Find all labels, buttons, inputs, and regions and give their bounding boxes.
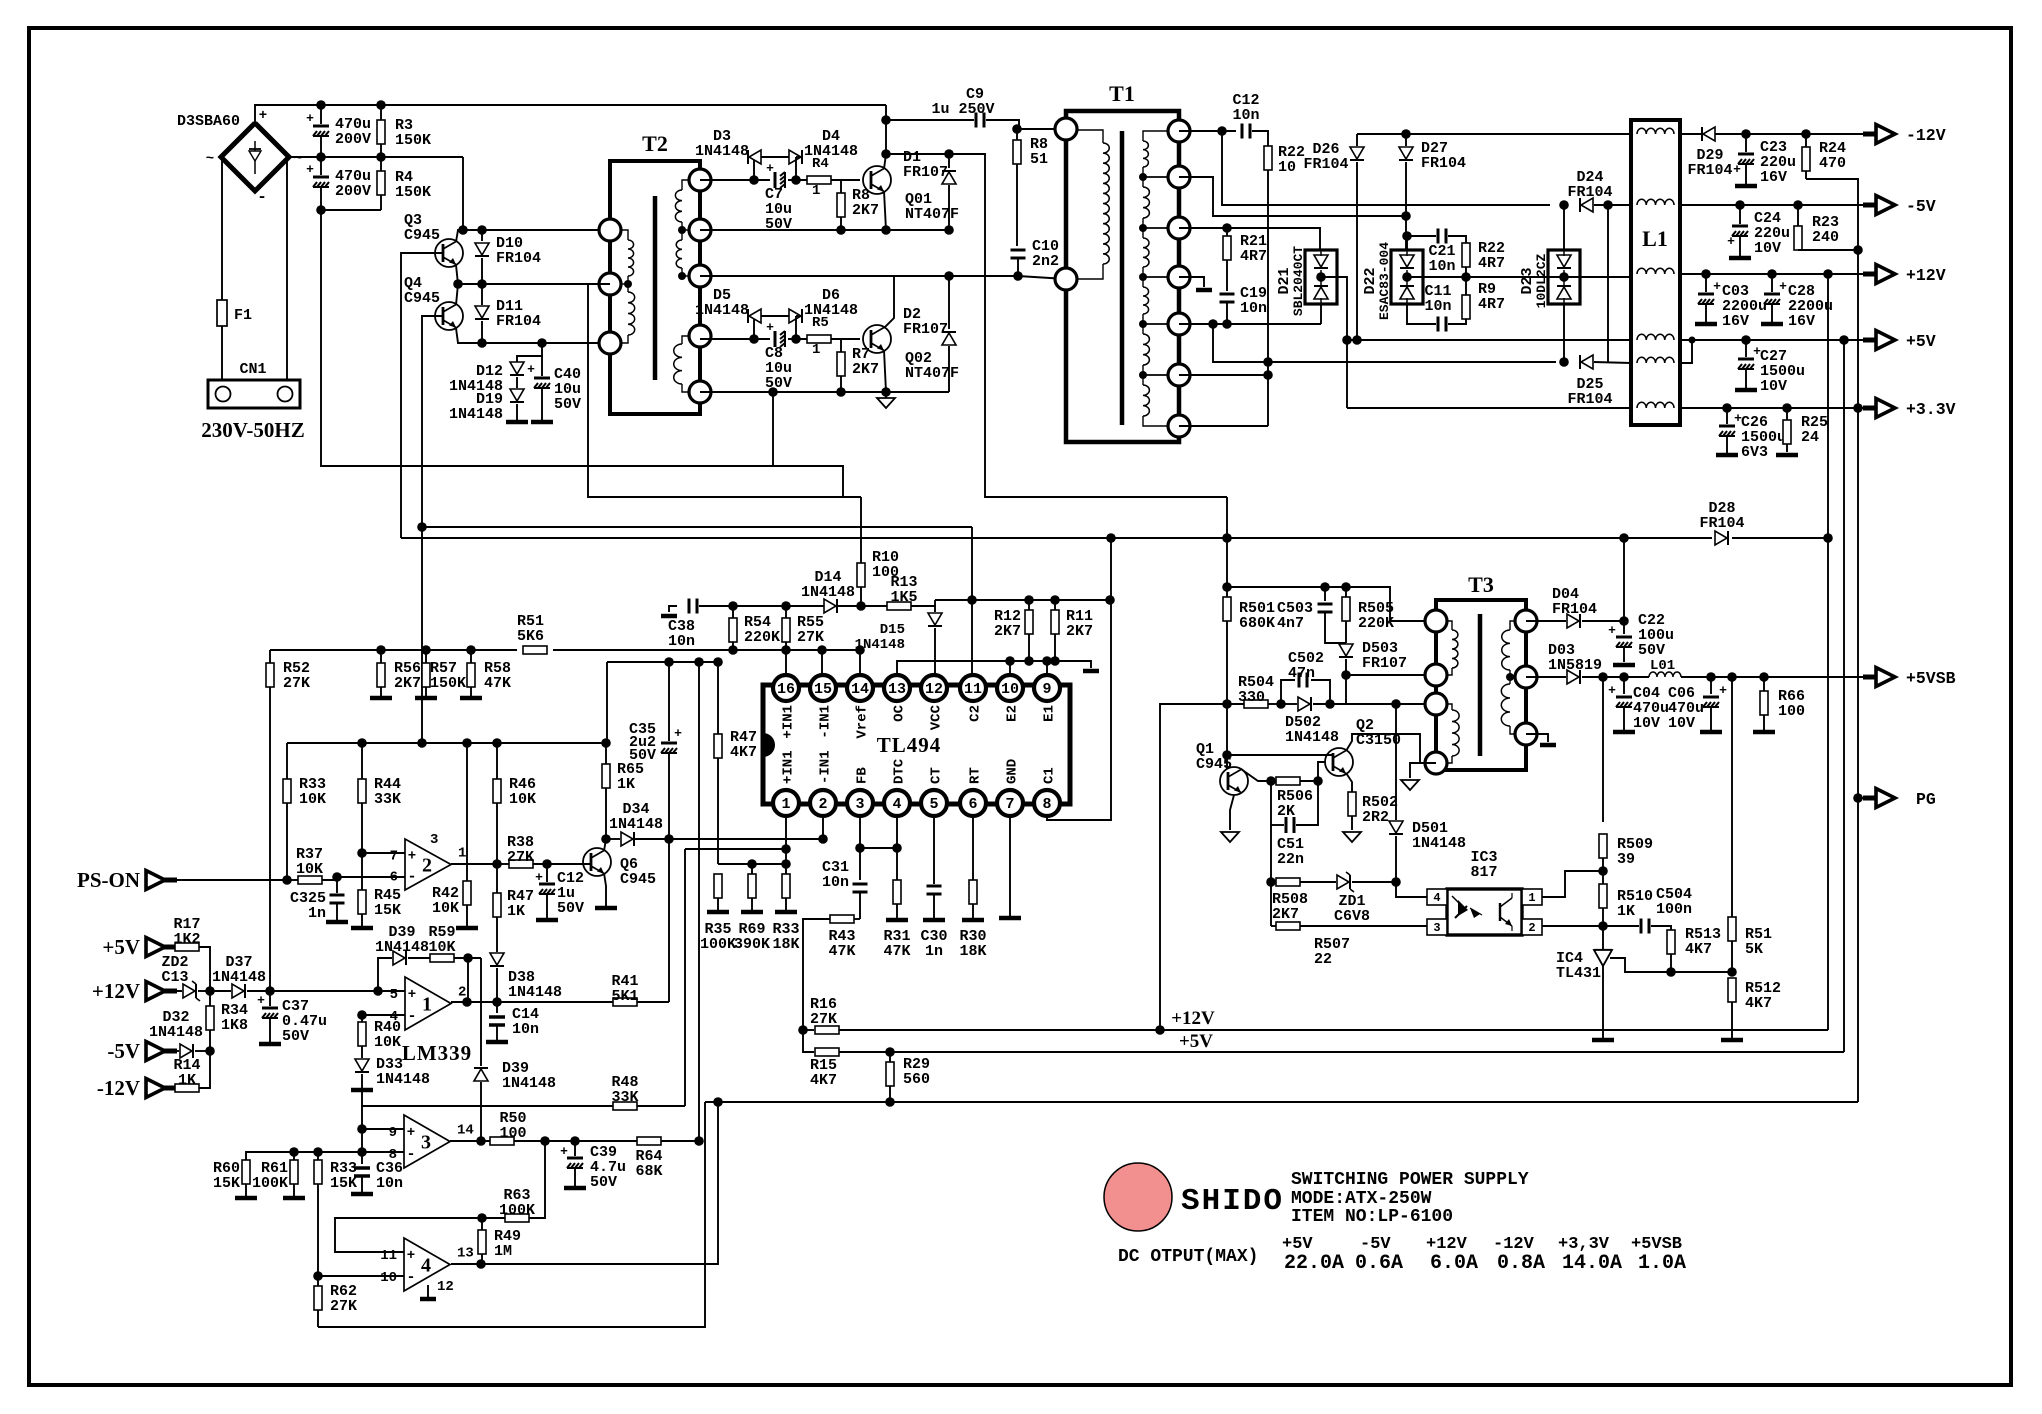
svg-text:11: 11 (964, 681, 982, 698)
capacitor C8 10u 50V (774, 331, 777, 347)
resistor R14 1K (165, 1087, 175, 1089)
wire: op2 out (451, 863, 497, 865)
resistor R17 1K2 (165, 946, 175, 948)
connector CN1 (208, 380, 300, 408)
resistor R58 47K (470, 650, 472, 663)
svg-text:10V: 10V (1760, 378, 1787, 395)
wire: T2 mid-left to bus (588, 284, 861, 497)
wire: +5V output rail (1680, 339, 1874, 341)
zener ZD2 C13 (165, 990, 182, 992)
resistor R42 10K (466, 743, 468, 881)
svg-text:2K7: 2K7 (394, 675, 421, 692)
svg-text:10V: 10V (1633, 715, 1660, 732)
svg-text:9: 9 (389, 1125, 397, 1141)
svg-text:+: + (535, 870, 543, 885)
ground (370, 696, 392, 701)
capacitor C504 100n (1603, 925, 1639, 927)
svg-text:MODE:ATX-250W: MODE:ATX-250W (1291, 1189, 1432, 1209)
svg-text:T2: T2 (642, 131, 668, 156)
svg-text:10DL2CZ: 10DL2CZ (1534, 253, 1549, 308)
svg-text:1: 1 (812, 183, 820, 199)
resistor R33 10K (286, 743, 288, 779)
svg-text:11: 11 (380, 1248, 397, 1264)
svg-text:4: 4 (421, 1255, 431, 1277)
wire: primary negative rail down (321, 210, 843, 497)
svg-text:2: 2 (422, 855, 432, 877)
resistor R50 100 (490, 1137, 514, 1145)
ground (923, 918, 945, 923)
diode D3 1N4148 (747, 157, 754, 180)
svg-text:+: + (257, 993, 265, 1008)
comparator 4 LM339 (404, 1238, 450, 1291)
svg-text:PS-ON: PS-ON (77, 868, 140, 892)
svg-text:4R7: 4R7 (1478, 296, 1505, 313)
diode D26 FR104 (1356, 134, 1358, 146)
wire (1270, 825, 1272, 882)
transistor Q4 C945 (435, 302, 463, 330)
svg-text:5K: 5K (1745, 941, 1763, 958)
resistor R63 100K (505, 1214, 529, 1222)
svg-text:2K7: 2K7 (1066, 623, 1093, 640)
wire: +12V output rail (1680, 273, 1874, 275)
svg-text:GND: GND (1005, 759, 1021, 784)
wire: snubber mid link (1345, 675, 1347, 704)
wire: D22 bottom rail (1407, 304, 1436, 324)
svg-text:10n: 10n (1428, 258, 1455, 275)
ground (486, 1040, 508, 1045)
svg-text:24: 24 (1801, 429, 1819, 446)
wire: R63 link (529, 1141, 545, 1218)
ground (999, 916, 1021, 921)
svg-text:817: 817 (1470, 864, 1497, 881)
+5V port (146, 938, 165, 957)
resistor R33 15K (317, 1152, 319, 1160)
svg-text:4n7: 4n7 (1277, 615, 1304, 632)
wire: R504 long feed (1160, 704, 1227, 1030)
svg-text:D15: D15 (880, 622, 905, 638)
wire: Q01 collector (884, 154, 886, 169)
wire: +12V sense to op1 (270, 990, 405, 992)
resistor R69 390K (751, 864, 753, 874)
svg-text:+: + (1719, 683, 1727, 698)
svg-text:FR104: FR104 (1567, 184, 1612, 201)
ground (235, 1196, 257, 1201)
wire: T1 pin3 line (1179, 228, 1320, 251)
svg-text:5: 5 (929, 796, 938, 813)
wire: D14 line (699, 605, 824, 607)
wire (1607, 205, 1609, 362)
diode D10 FR104 (481, 230, 483, 241)
resistor R57 150K (425, 650, 427, 663)
svg-text:15K: 15K (330, 1175, 357, 1192)
diode D2 FR107 (948, 276, 950, 329)
diode D14 1N4148 (824, 599, 836, 613)
resistor R35 100K (714, 874, 722, 898)
wire (462, 157, 464, 230)
wire: T3 right bottom ground (1526, 734, 1548, 742)
resistor R22 4R7 (1462, 243, 1470, 267)
ground (1613, 663, 1635, 668)
svg-text:22: 22 (1314, 951, 1332, 968)
svg-text:6: 6 (968, 796, 977, 813)
svg-text:+: + (408, 987, 416, 1003)
diode D25 FR104 (1581, 355, 1593, 369)
diode D1 FR107 (948, 154, 950, 168)
wire: D34 line (606, 838, 620, 840)
wire: D21 output (1321, 277, 1347, 340)
ground (775, 910, 797, 915)
wire: Q6 collector (604, 839, 606, 851)
svg-text:10K: 10K (374, 1034, 401, 1051)
svg-text:560: 560 (903, 1071, 930, 1088)
diode D19 1N4148 (510, 389, 524, 401)
resistor R24 470 (1805, 134, 1807, 147)
svg-text:1K8: 1K8 (221, 1017, 248, 1034)
svg-text:+: + (1733, 162, 1741, 177)
wire: op4 +in loop (335, 1218, 482, 1252)
resistor R56 2K7 (380, 650, 382, 663)
capacitor C12 1u 50V (546, 864, 548, 882)
ground (351, 926, 373, 931)
svg-text:C13: C13 (161, 969, 188, 986)
svg-text:+: + (766, 161, 774, 176)
capacitor C23 220u 16V (1745, 134, 1747, 152)
resistor R65 1K (605, 743, 607, 764)
svg-text:-IN1: -IN1 (818, 705, 834, 739)
svg-text:CN1: CN1 (239, 361, 266, 378)
ground (456, 926, 478, 931)
resistor R22 10 (1264, 146, 1272, 170)
diode D39 1N4148 (474, 1069, 488, 1081)
ground (962, 918, 984, 923)
svg-text:220K: 220K (1358, 615, 1394, 632)
capacitor C22 100u 50V (1623, 621, 1625, 634)
svg-text:50V: 50V (590, 1174, 617, 1191)
ground (1700, 730, 1722, 735)
wire: D22 mid to +12V line (1407, 276, 1631, 278)
svg-text:470: 470 (1819, 155, 1846, 172)
svg-text:C945: C945 (620, 871, 656, 888)
capacitor C24 220u 10V (1739, 205, 1741, 224)
svg-text:27K: 27K (507, 849, 534, 866)
svg-text:C945: C945 (404, 290, 440, 307)
capacitor C38 10n (669, 606, 677, 612)
resistor R64 68K (637, 1137, 661, 1145)
svg-text:1N4148: 1N4148 (449, 406, 503, 423)
svg-text:5K6: 5K6 (517, 628, 544, 645)
transistor Q1 C945 (1220, 767, 1248, 795)
resistor R509 39 (1602, 677, 1604, 822)
wire: feedback riser (467, 958, 469, 1002)
ground (326, 920, 348, 925)
svg-text:1K5: 1K5 (890, 589, 917, 606)
svg-text:14.0A: 14.0A (1562, 1252, 1622, 1275)
comparator 3 LM339 (404, 1115, 450, 1168)
-5V port (146, 1042, 165, 1061)
svg-text:15K: 15K (213, 1175, 240, 1192)
wire: +5VSB rail (1681, 676, 1874, 678)
capacitor C325 1n (336, 880, 338, 893)
wire: op2 -in / PS-ON (337, 876, 405, 878)
-12V port (1863, 132, 1877, 137)
resistor R30 18K (969, 880, 977, 904)
wire: PG bus y1102 (705, 1101, 1858, 1103)
svg-text:-: - (406, 1269, 415, 1286)
wire: R48 left leg (362, 1090, 613, 1106)
wire: E1 E2 OC ground line (897, 661, 1091, 676)
svg-text:13: 13 (457, 1246, 474, 1262)
wire (255, 105, 886, 123)
wire: divider top line (718, 863, 786, 865)
resistor R506 2K (1271, 780, 1276, 782)
capacitor C36 10n (361, 1152, 363, 1164)
wire: op3 -in line (246, 1152, 404, 1160)
capacitor C10 2n2 (1011, 249, 1026, 252)
ground (259, 1042, 281, 1047)
svg-text:+: + (527, 362, 535, 377)
svg-text:E2: E2 (1005, 705, 1021, 722)
node: bus junctions (316, 100, 326, 110)
wire: R41 riser (668, 839, 670, 1002)
capacitor C04 470u 10V (1623, 677, 1625, 694)
wire (838, 605, 888, 607)
resistor R48 33K (613, 1102, 637, 1110)
svg-text:C2: C2 (968, 705, 984, 722)
svg-text:-: - (407, 1008, 416, 1025)
svg-text:+: + (408, 848, 416, 864)
svg-text:+: + (1608, 623, 1616, 638)
wire: Q6 emitter to ground (604, 873, 606, 906)
svg-text:-: - (406, 1146, 415, 1163)
capacitor C03 2200u 16V (1705, 274, 1707, 292)
svg-text:10n: 10n (668, 633, 695, 650)
diode D34 1N4148 (621, 832, 633, 846)
comparator 2 LM339 (405, 839, 451, 890)
svg-text:22n: 22n (1277, 851, 1304, 868)
wire: D28 node to C22 (1623, 538, 1625, 621)
capacitor C51 22n (1270, 781, 1272, 825)
wire: pin4 DTC (896, 815, 898, 880)
wire: long feedback riser (698, 662, 700, 1141)
wire: Q02 collector to mid line (884, 276, 894, 328)
svg-text:+: + (1727, 234, 1735, 249)
svg-text:12: 12 (925, 681, 943, 698)
svg-text:+5VSB: +5VSB (1906, 669, 1956, 688)
wire: op1 +in (378, 990, 405, 992)
svg-text:FR104: FR104 (496, 250, 541, 267)
resistor R513 4K7 (1667, 930, 1675, 954)
svg-text:0.6A: 0.6A (1355, 1252, 1403, 1275)
ground (1729, 256, 1751, 261)
wire: emitter line y230 (884, 191, 886, 230)
diode D6 1N4148 (761, 315, 789, 317)
svg-text:100K: 100K (252, 1175, 288, 1192)
svg-text:10: 10 (1278, 159, 1296, 176)
resistor R25 24 (1786, 408, 1788, 420)
svg-text:1N4148: 1N4148 (502, 1075, 556, 1092)
svg-text:FR104: FR104 (496, 313, 541, 330)
resistor R11 2K7 (1054, 600, 1056, 610)
svg-text:+5V: +5V (1906, 332, 1936, 351)
svg-text:5: 5 (390, 987, 398, 1003)
resistor R4 1 (807, 176, 831, 184)
svg-text:1N4148: 1N4148 (508, 984, 562, 1001)
resistor R61 100K (293, 1152, 295, 1160)
ground (506, 420, 528, 425)
svg-text:1N4148: 1N4148 (149, 1024, 203, 1041)
ground (1716, 453, 1738, 458)
resistor R54 220K (732, 606, 734, 618)
resistor R46 10K (496, 743, 498, 779)
PG port (1858, 797, 1874, 799)
diode D5 1N4148 (747, 316, 754, 339)
svg-text:1N4148: 1N4148 (695, 143, 749, 160)
svg-text:2K7: 2K7 (994, 623, 1021, 640)
svg-text:L01: L01 (1650, 658, 1675, 674)
wire: +12V sense drop (1827, 274, 1829, 1030)
svg-text:3: 3 (1433, 921, 1440, 935)
resistor R40 10K (361, 1015, 363, 1022)
wire (860, 497, 862, 563)
resistor R9 4R7 (1462, 295, 1470, 319)
svg-text:FB: FB (855, 767, 871, 784)
svg-text:1: 1 (1528, 891, 1535, 905)
svg-text:1N4148: 1N4148 (609, 816, 663, 833)
wire: T1 pin7 (1179, 425, 1268, 427)
wire: op2 +in (362, 852, 405, 854)
svg-text:27K: 27K (330, 1298, 357, 1315)
wire: R24 tail (1806, 179, 1858, 406)
svg-text:50V: 50V (282, 1028, 309, 1045)
resistor R41 5K1 (613, 998, 637, 1006)
wire: pin5 CT (933, 815, 935, 884)
resistor R13 1K5 (887, 602, 911, 610)
svg-text:FR104: FR104 (1303, 156, 1348, 173)
svg-text:47K: 47K (484, 675, 511, 692)
capacitor C06 470u 10V (1710, 677, 1712, 694)
resistor R502 2R2 (1346, 773, 1352, 792)
ground (1735, 388, 1757, 393)
svg-text:2K7: 2K7 (1272, 906, 1299, 923)
resistor R60 15K (242, 1160, 250, 1184)
resistor R37 10K (287, 879, 298, 881)
svg-text:1K: 1K (178, 1072, 196, 1089)
svg-text:1N4148: 1N4148 (375, 939, 429, 956)
svg-text:E1: E1 (1042, 705, 1058, 722)
svg-text:10n: 10n (376, 1175, 403, 1192)
resistor R16 27K (815, 1026, 839, 1034)
wire: +3.3V feed (1346, 340, 1348, 408)
diode D28 FR104 (401, 537, 1712, 539)
svg-text:6V3: 6V3 (1741, 444, 1768, 461)
zener ZD1 C6V8 (1337, 875, 1349, 889)
svg-text:3: 3 (430, 832, 438, 848)
svg-text:47K: 47K (828, 943, 855, 960)
svg-text:27K: 27K (283, 675, 310, 692)
diode D24 FR104 (1581, 198, 1593, 212)
inductor L01 (1649, 672, 1681, 677)
resistor R508 2K7 (1266, 877, 1276, 887)
ground (1613, 730, 1635, 735)
svg-text:D3SBA60: D3SBA60 (177, 113, 240, 130)
svg-text:240: 240 (1812, 229, 1839, 246)
svg-text:1: 1 (458, 846, 466, 862)
wire: D501 riser (1391, 699, 1401, 709)
resistor R501 680K (1226, 587, 1228, 597)
resistor R43 47K (854, 918, 860, 920)
resistor R49 1M (481, 1218, 483, 1230)
ground (1753, 730, 1775, 735)
svg-text:27K: 27K (810, 1011, 837, 1028)
svg-text:1N4148: 1N4148 (376, 1071, 430, 1088)
svg-text:13: 13 (888, 681, 906, 698)
svg-text:2K7: 2K7 (852, 202, 879, 219)
svg-text:200V: 200V (335, 131, 371, 148)
wire: R12 R11 bottoms (1028, 634, 1030, 661)
svg-text:FR107: FR107 (1362, 655, 1407, 672)
wire: Q1 base to Q2 (1227, 754, 1333, 756)
svg-text:150K: 150K (395, 184, 431, 201)
svg-text:-12V: -12V (97, 1076, 140, 1100)
svg-text:230V-50HZ: 230V-50HZ (201, 418, 304, 442)
resistor R66 100 (1763, 677, 1765, 691)
resistor R7 2K7 (840, 339, 842, 352)
wire: R13 to D15 (911, 606, 935, 612)
ground (1761, 322, 1783, 327)
svg-text:1: 1 (422, 994, 432, 1016)
transistor Q3 C945 (435, 239, 463, 267)
svg-text:150K: 150K (430, 675, 466, 692)
dual diode D21 SBL2040CT (1305, 250, 1337, 304)
svg-text:390K: 390K (734, 936, 770, 953)
svg-text:10K: 10K (432, 900, 459, 917)
svg-text:+12V: +12V (1906, 266, 1946, 285)
svg-text:1N4148: 1N4148 (801, 584, 855, 601)
svg-text:100: 100 (1778, 703, 1805, 720)
svg-text:16V: 16V (1788, 313, 1815, 330)
ground (1592, 1038, 1614, 1043)
optocoupler IC3 817 (1447, 889, 1522, 935)
svg-text:8: 8 (1042, 796, 1051, 813)
svg-text:C945: C945 (404, 227, 440, 244)
svg-text:33K: 33K (611, 1089, 638, 1106)
diode D33 1N4148 (355, 1059, 369, 1071)
svg-text:51: 51 (1030, 151, 1048, 168)
capacitor C14 10n (496, 1002, 498, 1013)
svg-text:-5V: -5V (1906, 197, 1936, 216)
svg-text:T3: T3 (1468, 572, 1494, 597)
svg-text:50V: 50V (554, 396, 581, 413)
svg-text:FR104: FR104 (1699, 515, 1744, 532)
svg-text:+: + (1713, 279, 1721, 294)
resistor R510 1K (1599, 884, 1607, 908)
svg-text:10: 10 (380, 1270, 397, 1286)
capacitor C9 1u 250V (886, 119, 974, 121)
svg-text:10K: 10K (509, 791, 536, 808)
svg-text:SHIDO: SHIDO (1181, 1184, 1284, 1219)
svg-text:SWITCHING POWER SUPPLY: SWITCHING POWER SUPPLY (1291, 1170, 1529, 1190)
svg-text:10K: 10K (296, 861, 323, 878)
svg-text:+5V: +5V (1179, 1031, 1213, 1052)
svg-text:1N4148: 1N4148 (1285, 729, 1339, 746)
resistor R507 22 (1276, 922, 1300, 930)
svg-text:-IN1: -IN1 (818, 750, 834, 784)
wire: C12 tap down to -5V diode line (1222, 131, 1550, 205)
diode D503 FR107 (1339, 644, 1353, 656)
ground (1695, 322, 1717, 327)
resistor R51 5K (1731, 677, 1733, 917)
resistor R38 27K (497, 863, 509, 865)
